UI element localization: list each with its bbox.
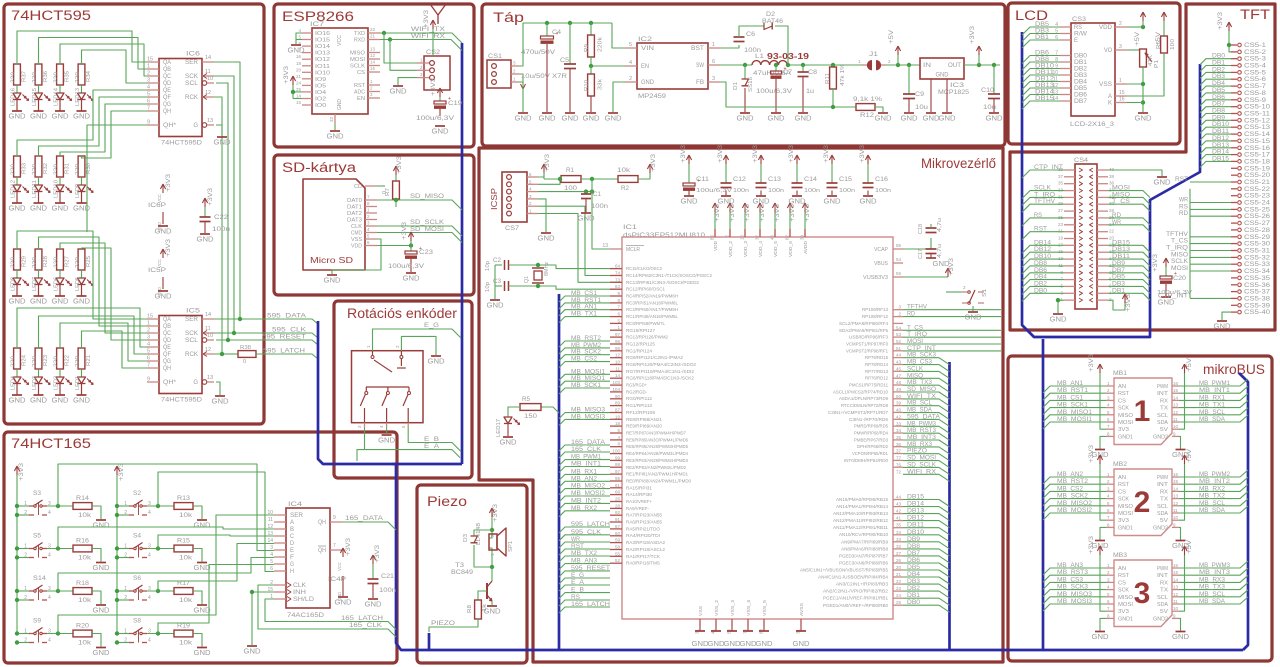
svg-text:GND: GND (212, 397, 230, 406)
wire P1 down to VSS net (1142, 67, 1144, 84)
ground (215, 395, 225, 397)
ground (96, 562, 106, 564)
pin 12 B (274, 528, 286, 530)
ground (1217, 320, 1227, 322)
net MB_INT3 wire (1179, 568, 1248, 575)
svg-text:CS5-22: CS5-22 (1244, 187, 1271, 193)
capacitor C8 1u (801, 63, 805, 67)
power +3V3 arrow Tap (978, 48, 980, 56)
svg-text:DB12: DB12 (907, 515, 925, 522)
svg-text:10p: 10p (485, 261, 491, 271)
MCU power pin VDD_4 (759, 205, 761, 213)
svg-text:TX: TX (1160, 406, 1168, 412)
power +5V arrow (1184, 366, 1186, 374)
svg-text:SCLK: SCLK (350, 64, 365, 70)
svg-text:GND: GND (740, 639, 758, 648)
svg-text:220: 220 (32, 356, 38, 367)
wire CD (377, 185, 385, 187)
wire GND2 (1179, 618, 1181, 631)
resistor R13 10k (174, 503, 193, 510)
svg-text:GND2: GND2 (1153, 616, 1168, 622)
wire switch to resistor (47, 590, 73, 592)
net SCLK wire (903, 371, 950, 378)
svg-text:DB1: DB1 (1035, 34, 1049, 41)
wire 3V3 pin to arrow (1100, 463, 1106, 520)
net 165_LATCH wire (559, 607, 610, 613)
svg-text:+3V3: +3V3 (969, 26, 976, 44)
wire encoder pin2 to ground (401, 336, 436, 355)
net E_A wire (559, 585, 610, 591)
net MB_SDA wire (1179, 597, 1248, 604)
power +3V3 arrow col2 (116, 468, 118, 476)
pin 2 QC (147, 332, 159, 334)
wire IO16 IO15 to ground (296, 33, 302, 44)
MCU left pin 99 (610, 459, 622, 461)
connector CS5 pin 9 (1231, 99, 1237, 101)
wire IC6 G to ground (216, 125, 222, 136)
capacitor C15 100n (831, 157, 833, 165)
svg-text:10u: 10u (983, 105, 996, 111)
svg-text:10k: 10k (78, 513, 92, 519)
LED LED14 (56, 93, 64, 100)
svg-text:100n: 100n (591, 204, 608, 210)
connector CS5 pin 21 (1231, 181, 1237, 183)
svg-text:27: 27 (1058, 208, 1064, 213)
svg-text:77: 77 (896, 456, 902, 461)
svg-text:66: 66 (615, 490, 621, 495)
IC IC7 ESP8266 module (312, 28, 368, 114)
svg-text:RE3/RP83/AN29/PWM2H/PMD3: RE3/RP83/AN29/PWM2H/PMD3 (626, 458, 688, 463)
svg-text:LED9: LED9 (75, 184, 81, 198)
pin 2 RST (1106, 574, 1114, 576)
svg-text:GND: GND (30, 112, 48, 121)
svg-text:61: 61 (615, 483, 621, 488)
svg-text:48: 48 (896, 380, 902, 385)
svg-text:E: E (290, 548, 294, 554)
wire K to ground net (1127, 102, 1143, 104)
power +3V3 arrow C23 (410, 234, 412, 242)
ground (727, 630, 737, 632)
net MB_RX2 wire (1179, 484, 1248, 491)
svg-text:mikroBUS: mikroBUS (1203, 362, 1265, 377)
resistor R5 150 with LED17 (541, 407, 559, 413)
svg-text:11: 11 (615, 366, 620, 371)
resistor R16 10k (73, 545, 92, 552)
svg-text:10k: 10k (78, 641, 92, 647)
svg-text:CS5-12: CS5-12 (1244, 118, 1271, 124)
svg-text:DB0: DB0 (1074, 54, 1088, 60)
net MB_PWM2 wire (559, 348, 610, 354)
svg-text:9: 9 (147, 377, 150, 383)
svg-text:INT: INT (1157, 482, 1169, 488)
svg-text:4: 4 (148, 553, 151, 559)
capacitor C10 10u (992, 63, 996, 67)
svg-text:21: 21 (896, 572, 902, 577)
svg-text:MB2: MB2 (1113, 461, 1127, 468)
bus wire LCD vertical (1022, 32, 1200, 337)
svg-text:16: 16 (1119, 97, 1125, 103)
capacitor C4 470u (545, 21, 549, 25)
svg-text:12: 12 (615, 353, 621, 358)
wire IC5 QE to LED row4 col1 (17, 308, 147, 348)
svg-text:15: 15 (147, 314, 153, 320)
svg-text:GND: GND (692, 639, 710, 648)
svg-text:CS5-28: CS5-28 (1244, 228, 1271, 234)
svg-text:MB_RST1: MB_RST1 (1057, 387, 1089, 394)
pin 10 SER (274, 514, 286, 516)
ground (197, 647, 207, 649)
pin 16 PWM (1172, 385, 1179, 387)
svg-text:9: 9 (147, 120, 150, 126)
svg-text:MB_MISO2: MB_MISO2 (571, 483, 606, 490)
net MB_INT1 wire (559, 467, 610, 473)
svg-text:RG3/RGD+: RG3/RGD+ (626, 383, 647, 388)
pin IO11 (302, 65, 312, 67)
svg-text:GND: GND (155, 227, 173, 236)
connector CS5 pin 36 (1231, 284, 1237, 286)
net DB0 wire (893, 604, 903, 606)
svg-text:100u/6,3V: 100u/6,3V (756, 89, 792, 95)
capacitor C9 10u (907, 63, 911, 67)
svg-text:MB_MOSI2: MB_MOSI2 (571, 490, 606, 497)
wire IC5 QF to LED row4 col2 (39, 316, 148, 354)
svg-text:0: 0 (243, 359, 246, 365)
pin 6 QG (147, 103, 159, 105)
svg-text:MOSI: MOSI (1118, 602, 1133, 608)
pin 16 PWM (1172, 476, 1179, 478)
bus wire MCU left trunk (558, 294, 561, 650)
ground (503, 436, 513, 438)
MCU left pin 4 (610, 439, 622, 441)
MCU left pin 67 (610, 528, 622, 530)
svg-text:IC7: IC7 (310, 21, 325, 28)
connector CS4 pin row 11/12 (1064, 203, 1075, 205)
svg-text:150: 150 (524, 414, 538, 420)
svg-text:60: 60 (615, 531, 621, 536)
svg-text:R2: R2 (621, 186, 630, 192)
svg-text:SDA: SDA (1157, 511, 1168, 517)
ground (518, 112, 528, 114)
svg-text:470u/50V: 470u/50V (521, 50, 555, 56)
svg-text:GND: GND (681, 197, 699, 206)
pin 1 BST (708, 47, 720, 49)
svg-text:GND: GND (756, 639, 774, 648)
svg-text:GND1: GND1 (1118, 616, 1133, 622)
svg-text:R11: R11 (825, 73, 831, 84)
svg-text:14: 14 (1173, 395, 1179, 400)
svg-text:SH/LD: SH/LD (293, 597, 315, 603)
svg-text:49: 49 (896, 387, 902, 392)
svg-text:3: 3 (147, 335, 150, 341)
svg-text:RE9/RPI89/AN20: RE9/RPI89/AN20 (626, 424, 662, 429)
wire 5V pin to arrow (1179, 554, 1185, 611)
wire rail to switch (117, 505, 129, 507)
net 595_CLK wire (559, 535, 610, 541)
LED LED11 (35, 185, 43, 192)
svg-text:GND: GND (1050, 315, 1068, 324)
svg-text:WR: WR (1112, 219, 1121, 226)
svg-text:595_CLK: 595_CLK (571, 529, 602, 536)
connector CS5 pin 22 (1231, 188, 1237, 190)
svg-text:GND: GND (860, 197, 878, 206)
wire (59, 270, 61, 278)
net DB14 wire (893, 506, 903, 508)
wire IC6 QH* chain down (87, 125, 147, 232)
svg-text:QH: QH (163, 109, 171, 115)
svg-text:RG8/RPI120/PMA4/C2IN3-/SDO2: RG8/RPI120/PMA4/C2IN3-/SDO2 (626, 362, 696, 367)
svg-text:C4: C4 (552, 29, 561, 36)
wire CS4 pin2 to +3V3 (1108, 300, 1125, 310)
ground (200, 233, 210, 235)
MCU left pin 11 (610, 370, 622, 372)
resistor R17 10k (174, 588, 193, 595)
MCU ground pin VSS_5 (763, 619, 765, 626)
resistor R35 220 (57, 64, 64, 85)
net 595_LATCH wire to bus (256, 354, 318, 359)
svg-text:4: 4 (148, 638, 151, 644)
svg-text:QD: QD (163, 81, 172, 87)
svg-text:A: A (1108, 94, 1112, 100)
ground (12, 202, 22, 204)
wire switch sense to IC4 (58, 558, 274, 592)
LED LED15 (35, 93, 43, 100)
resistor R37 220 (14, 64, 21, 85)
pin 6 QG (147, 360, 159, 362)
svg-text:13: 13 (602, 243, 608, 249)
svg-text:E_B: E_B (424, 436, 439, 443)
svg-text:R36: R36 (43, 71, 49, 82)
connector CS5 pin 37 (1231, 291, 1237, 293)
wire switch sense to IC4 (58, 464, 274, 551)
pin 10 5V (1172, 428, 1179, 430)
svg-text:CS5-39: CS5-39 (1244, 303, 1271, 309)
net MOSI wire (1108, 191, 1150, 198)
svg-text:24: 24 (896, 593, 902, 598)
net SD_MISO wire to bus (377, 200, 462, 210)
svg-text:AN15/PMA0/RPI95/RB15: AN15/PMA0/RPI95/RB15 (836, 497, 888, 502)
wire GND2 (1179, 436, 1181, 449)
power symbol IC4P (342, 550, 344, 558)
svg-text:MB_TX1: MB_TX1 (1199, 402, 1226, 409)
svg-text:595_RESET: 595_RESET (571, 565, 610, 572)
ground (327, 274, 337, 276)
svg-text:QG: QG (163, 102, 171, 108)
net RS wire (559, 600, 610, 606)
pin 13 C (274, 535, 286, 537)
svg-text:SD_SCLK: SD_SCLK (410, 219, 445, 226)
MCU ground pin VSS_3 (731, 619, 733, 626)
resistor R18 10k (73, 588, 92, 595)
net MISO wire (1108, 197, 1150, 204)
svg-text:ICSP: ICSP (489, 188, 499, 210)
svg-text:DB2: DB2 (1074, 67, 1088, 73)
svg-text:C18: C18 (918, 224, 924, 234)
svg-text:14: 14 (1173, 577, 1179, 582)
resistor R27 220 (57, 249, 64, 270)
svg-text:SER: SER (185, 317, 199, 323)
svg-text:C16: C16 (875, 177, 889, 183)
wire (38, 270, 40, 278)
svg-text:VDD: VDD (1099, 25, 1113, 31)
power +3V3 arrow usb (947, 270, 949, 278)
svg-text:19: 19 (615, 414, 621, 419)
svg-text:1u: 1u (806, 89, 814, 95)
svg-text:38: 38 (1109, 174, 1115, 179)
connector CS5 pin 11 (1231, 113, 1237, 115)
svg-text:CS5-14: CS5-14 (1244, 132, 1271, 138)
svg-text:DAT2: DAT2 (347, 211, 362, 217)
connector CS5 pin 26 (1231, 215, 1237, 217)
svg-text:GND: GND (244, 647, 262, 656)
svg-text:4,7u: 4,7u (937, 244, 943, 258)
pin IO0 (302, 104, 312, 106)
svg-text:3V3: 3V3 (1118, 427, 1129, 433)
svg-text:RC14/RPI62/C3N1-/T1CK/SOSCO/PG: RC14/RPI62/C3N1-/T1CK/SOSCO/PGEC2 (626, 273, 712, 278)
svg-text:IO4: IO4 (315, 90, 326, 96)
svg-text:DB3: DB3 (1074, 73, 1088, 79)
svg-text:MB_SCL: MB_SCL (1199, 409, 1226, 416)
svg-text:VSS: VSS (1099, 82, 1112, 88)
pin 8 GND1 (1106, 617, 1114, 619)
pin 14 RX (1172, 490, 1179, 492)
ground (1095, 631, 1105, 633)
net CTP_INT wire (1190, 297, 1231, 299)
svg-text:RP76/RD12: RP76/RD12 (865, 376, 888, 381)
svg-text:GND: GND (9, 204, 27, 213)
svg-text:33: 33 (896, 537, 902, 542)
svg-text:74AC165D: 74AC165D (287, 612, 324, 619)
connector CS5 pin 34 (1231, 270, 1237, 272)
svg-text:93-03-19: 93-03-19 (767, 51, 809, 61)
svg-text:44: 44 (896, 353, 902, 358)
svg-text:10: 10 (1173, 424, 1179, 429)
net DB5 wire (893, 569, 903, 571)
svg-text:USB/ID/RP96/RF3: USB/ID/RP96/RF3 (849, 335, 888, 340)
svg-text:RA6/RPI23/AN55: RA6/RPI23/AN55 (626, 520, 662, 525)
svg-text:26: 26 (896, 558, 902, 563)
svg-text:PWM: PWM (1157, 566, 1168, 572)
svg-text:R16: R16 (76, 539, 90, 545)
svg-text:62: 62 (785, 235, 790, 241)
svg-text:RG1/RPI113: RG1/RPI113 (626, 403, 652, 408)
net SD_SCLK wire to bus (377, 226, 462, 236)
MCU left pin 59 (610, 542, 622, 544)
ground (12, 110, 22, 112)
pin 14 SER (202, 61, 214, 63)
pin 9 DB2 net DB10 (1060, 68, 1071, 70)
svg-text:30: 30 (800, 235, 805, 241)
net MB_CS2 wire (559, 362, 610, 368)
svg-text:QB: QB (163, 324, 171, 330)
svg-text:47k 1%: 47k 1% (840, 64, 846, 86)
net MOSI wire (903, 343, 1001, 345)
ground (711, 630, 721, 632)
encoder switch contact (365, 387, 367, 391)
svg-text:14: 14 (1173, 486, 1179, 491)
svg-text:7: 7 (333, 543, 336, 549)
pin 21 RXD (368, 39, 380, 41)
pin 2 RST (1106, 483, 1114, 485)
junction (382, 31, 386, 35)
svg-text:GND: GND (288, 46, 306, 55)
pin 15 A (1115, 95, 1127, 97)
connector CS5 pin 24 (1231, 202, 1237, 204)
connector CS5 pin 15 (1231, 140, 1237, 142)
power +5V arrow (1184, 457, 1186, 465)
svg-text:R35: R35 (65, 71, 71, 82)
svg-text:45: 45 (896, 366, 902, 371)
svg-text:100n: 100n (379, 588, 396, 594)
svg-text:+3V3: +3V3 (401, 222, 408, 240)
svg-text:LED4: LED4 (11, 376, 17, 390)
svg-text:100n: 100n (804, 188, 820, 194)
net DB9 wire (1108, 266, 1150, 273)
svg-text:GND: GND (539, 114, 557, 123)
pin IO12 (302, 58, 312, 60)
svg-text:R9: R9 (584, 44, 590, 52)
svg-text:16: 16 (1173, 563, 1179, 568)
svg-text:+3V3: +3V3 (544, 154, 551, 172)
pin 5 MISO (1106, 596, 1114, 598)
svg-text:C: C (290, 534, 295, 540)
svg-text:RS: RS (571, 594, 580, 601)
svg-text:GND: GND (52, 112, 70, 121)
svg-text:E_A: E_A (424, 443, 440, 450)
svg-text:100u/6,3V: 100u/6,3V (696, 188, 732, 194)
svg-text:DB6: DB6 (907, 557, 921, 564)
wire IC5 QH to LED row4 col4 (82, 331, 148, 368)
net MB_MOSI1 wire (559, 374, 610, 380)
svg-text:MB_AN2: MB_AN2 (1057, 471, 1084, 478)
frame ESP8266 (274, 4, 474, 147)
svg-text:CS5-21: CS5-21 (1244, 180, 1271, 186)
svg-text:15: 15 (1173, 388, 1179, 393)
power +5V arrow R6 (1163, 14, 1165, 22)
svg-text:0: 0 (382, 191, 388, 194)
svg-text:LED6: LED6 (54, 277, 60, 291)
svg-text:MISO: MISO (1118, 595, 1134, 601)
svg-text:14: 14 (296, 94, 302, 99)
svg-text:IC6P: IC6P (148, 202, 166, 209)
svg-text:53: 53 (896, 332, 902, 337)
svg-text:16: 16 (1173, 381, 1179, 386)
wire (16, 270, 18, 278)
wire (38, 384, 40, 396)
connector CS5 pin 32 (1231, 256, 1237, 258)
net DB11 wire (1108, 259, 1150, 266)
svg-text:DB4: DB4 (1074, 80, 1088, 86)
svg-text:GND: GND (30, 396, 48, 405)
wire IC3 out to +3V3 (964, 64, 1000, 66)
svg-text:4,7u: 4,7u (937, 218, 943, 232)
svg-text:IO5: IO5 (315, 83, 326, 89)
svg-text:DB8: DB8 (907, 543, 921, 550)
svg-text:CS5-10: CS5-10 (1244, 105, 1271, 111)
net E_G wire (559, 578, 610, 584)
MCU left pin 60 (610, 535, 622, 537)
ground (743, 630, 753, 632)
net RD wire (903, 316, 1001, 318)
pin 14 RX (1172, 399, 1179, 401)
bus wire piezo stub (428, 633, 431, 650)
svg-text:28: 28 (615, 503, 621, 508)
ground (12, 295, 22, 297)
svg-text:12: 12 (370, 53, 376, 58)
wire (16, 369, 18, 377)
svg-text:MB3: MB3 (1113, 552, 1127, 559)
wire (38, 85, 40, 93)
svg-text:RG6/RPI118/PMA5/C1N3-/SCK2: RG6/RPI118/PMA5/C1N3-/SCK2 (626, 376, 694, 381)
